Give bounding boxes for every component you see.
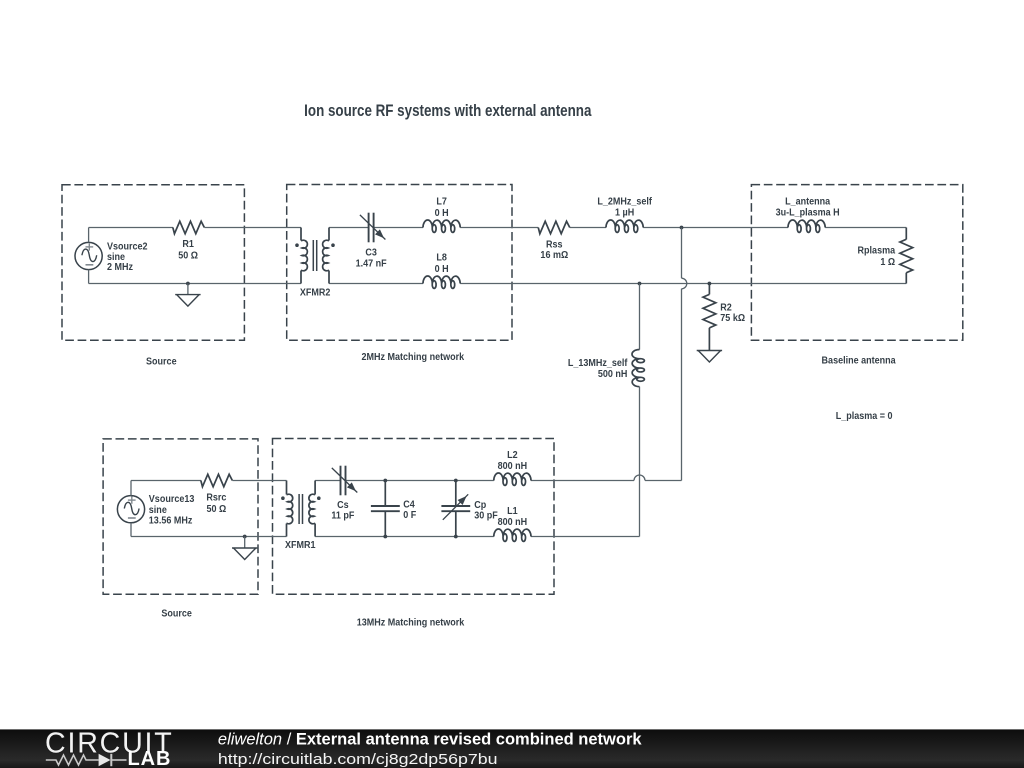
svg-text:Rsrc: Rsrc bbox=[206, 491, 226, 502]
svg-text:1 µH: 1 µH bbox=[615, 206, 634, 217]
svg-text:500 nH: 500 nH bbox=[598, 368, 628, 379]
svg-text:11 pF: 11 pF bbox=[331, 509, 354, 520]
svg-text:L2: L2 bbox=[507, 449, 518, 460]
svg-text:16 mΩ: 16 mΩ bbox=[540, 249, 568, 260]
svg-text:0 H: 0 H bbox=[435, 263, 449, 274]
svg-text:L1: L1 bbox=[507, 504, 518, 515]
svg-text:LAB: LAB bbox=[128, 748, 172, 768]
svg-text:13MHz Matching network: 13MHz Matching network bbox=[357, 616, 465, 627]
svg-text:2 MHz: 2 MHz bbox=[107, 261, 133, 272]
svg-text:Rss: Rss bbox=[546, 238, 563, 249]
svg-text:50 Ω: 50 Ω bbox=[178, 249, 198, 260]
svg-text:50 Ω: 50 Ω bbox=[207, 503, 227, 514]
svg-text:0 F: 0 F bbox=[403, 509, 416, 520]
svg-text:Source: Source bbox=[146, 355, 177, 366]
svg-text:Rplasma: Rplasma bbox=[858, 244, 896, 255]
svg-text:L_13MHz_self: L_13MHz_self bbox=[568, 357, 628, 368]
svg-text:http://circuitlab.com/cj8g2dp5: http://circuitlab.com/cj8g2dp56p7bu bbox=[218, 750, 498, 767]
svg-text:Baseline antenna: Baseline antenna bbox=[822, 354, 897, 365]
svg-text:L_2MHz_self: L_2MHz_self bbox=[597, 195, 652, 206]
svg-text:XFMR2: XFMR2 bbox=[300, 286, 331, 297]
svg-text:30 pF: 30 pF bbox=[474, 509, 498, 520]
svg-text:Vsource13: Vsource13 bbox=[149, 493, 195, 504]
svg-text:0 H: 0 H bbox=[435, 207, 449, 218]
svg-text:800 nH: 800 nH bbox=[498, 460, 528, 471]
svg-text:XFMR1: XFMR1 bbox=[285, 539, 316, 550]
svg-text:C3: C3 bbox=[365, 246, 377, 257]
svg-text:eliwelton / External antenna r: eliwelton / External antenna revised com… bbox=[218, 731, 642, 749]
svg-text:75 kΩ: 75 kΩ bbox=[720, 312, 745, 323]
svg-text:1 Ω: 1 Ω bbox=[880, 256, 895, 267]
svg-text:L7: L7 bbox=[436, 195, 447, 206]
svg-text:1.47 nF: 1.47 nF bbox=[356, 257, 387, 268]
svg-text:3u-L_plasma H: 3u-L_plasma H bbox=[776, 206, 840, 217]
svg-text:L8: L8 bbox=[436, 251, 447, 262]
svg-text:R1: R1 bbox=[182, 238, 194, 249]
svg-text:Source: Source bbox=[161, 607, 192, 618]
svg-text:L_plasma = 0: L_plasma = 0 bbox=[836, 410, 893, 421]
svg-text:13.56 MHz: 13.56 MHz bbox=[149, 514, 193, 525]
svg-text:800 nH: 800 nH bbox=[498, 516, 528, 527]
svg-text:L_antenna: L_antenna bbox=[785, 195, 831, 206]
svg-text:2MHz Matching network: 2MHz Matching network bbox=[362, 350, 465, 361]
svg-text:Ion source RF systems with ext: Ion source RF systems with external ante… bbox=[304, 102, 592, 121]
